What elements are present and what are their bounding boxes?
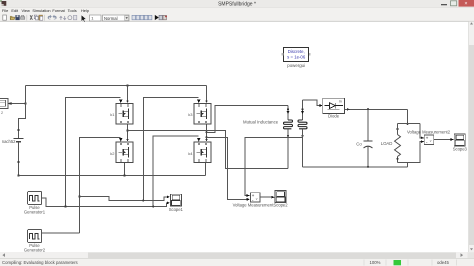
mouse cursor — [81, 15, 86, 22]
node secondary bottom — [301, 135, 303, 137]
pulse generator2 block — [28, 230, 42, 243]
svg-text:Generator2: Generator2 — [24, 247, 46, 252]
wire pulse generator1 output — [42, 198, 167, 207]
toolbar icon — [163, 15, 166, 19]
svg-text:Voltage Measurement2: Voltage Measurement2 — [407, 130, 451, 135]
svg-text:Generator1: Generator1 — [24, 209, 46, 214]
svg-text:nach52: nach52 — [2, 139, 16, 144]
svg-text:Edit: Edit — [11, 8, 19, 13]
new — [3, 15, 7, 20]
play button — [155, 15, 159, 20]
powergui block — [282, 48, 311, 62]
voltage measurement block — [250, 193, 259, 203]
wire top rail left drop — [19, 86, 26, 139]
open — [10, 16, 15, 20]
node B midpoint — [205, 131, 207, 133]
voltage measurement2 block — [424, 135, 434, 145]
window icon — [2, 1, 7, 6]
node A midpoint — [126, 129, 128, 131]
node battery bottom port — [17, 161, 19, 163]
capacitor Co — [364, 109, 373, 167]
wire vm2 to scope3 — [434, 139, 451, 141]
wire k4 source to ground rail — [205, 163, 207, 176]
toolbar icon — [63, 16, 66, 20]
wire k3 m to voltage measurement minus — [207, 137, 247, 199]
transistor k1 — [116, 104, 133, 125]
wire primary bottom drop — [287, 129, 289, 169]
scope3 block — [454, 134, 465, 146]
print — [21, 17, 25, 20]
horizontal scrollbar — [0, 252, 474, 259]
toolbar icon — [148, 15, 152, 19]
node pg1 to k1 — [64, 205, 66, 207]
toolbar icon — [159, 15, 162, 19]
svg-text:Compiling: Evaluating block pa: Compiling: Evaluating block parameters — [2, 260, 78, 265]
node pg1 to k4 — [152, 205, 154, 207]
wire load bottom — [398, 142, 424, 163]
svg-text:×: × — [464, 1, 467, 7]
transistor k4 — [194, 142, 211, 163]
svg-text:powergui: powergui — [287, 63, 305, 68]
toolbar icon — [60, 16, 63, 20]
menu bar — [2, 8, 89, 13]
corner artifact — [0, 0, 2, 2]
svg-text:Diode: Diode — [328, 114, 340, 119]
svg-text:m: m — [339, 100, 342, 104]
toolbar icon — [132, 15, 136, 19]
diode block — [323, 98, 345, 113]
wire load top — [398, 123, 420, 125]
wire k4 gate staple — [153, 136, 199, 206]
wire ground rail — [19, 175, 206, 177]
display block (cut off at left edge) — [0, 98, 8, 108]
svg-text:Tools: Tools — [68, 8, 77, 13]
DC voltage source nach52 — [14, 139, 24, 142]
wire k3 drain drop — [206, 86, 208, 101]
wire k1 drain drop — [127, 86, 129, 101]
toolbar icon — [68, 16, 72, 20]
node load bottom — [396, 158, 398, 160]
wire output bottom rail — [303, 166, 408, 168]
node load top tee — [406, 123, 408, 125]
pulse generator1 block — [28, 192, 42, 205]
mutual inductance primary coil — [284, 106, 293, 129]
CIRCUIT AREA — [0, 48, 468, 253]
svg-text:Mutual Inductance: Mutual Inductance — [243, 119, 279, 124]
wire battery bottom — [18, 142, 20, 176]
wire k3-k4 chain — [206, 125, 208, 140]
wire node A to primary return — [128, 131, 289, 169]
title bar — [0, 0, 474, 8]
scope1 block — [170, 194, 181, 206]
wire secondary tap to voltage measurement plus — [245, 137, 303, 195]
svg-text:Help: Help — [81, 8, 89, 13]
svg-text:LOAD: LOAD — [381, 141, 393, 146]
wire pulse generator2 output — [42, 232, 80, 234]
node Co top — [367, 108, 369, 110]
wire k2 gate staple — [80, 138, 121, 234]
svg-text:Voltage Measurement: Voltage Measurement — [233, 203, 275, 208]
toolbar icon — [136, 15, 140, 19]
node battery to ground rail — [17, 174, 19, 176]
svg-text:File: File — [2, 8, 8, 13]
svg-text:Co: Co — [356, 141, 362, 146]
node pg2 branch — [78, 195, 80, 197]
wire k3 gate staple — [143, 98, 198, 201]
svg-text:100%: 100% — [370, 260, 381, 265]
svg-text:Simulation: Simulation — [32, 8, 50, 13]
node k3 m port — [205, 136, 207, 138]
mutual inductance secondary coil — [298, 100, 307, 129]
wire load bottom to output rail — [407, 163, 409, 167]
svg-text:SMPSfullbridge *: SMPSfullbridge * — [218, 2, 256, 8]
sim time field — [90, 15, 102, 21]
node load top left — [396, 128, 398, 130]
resistor LOAD — [395, 124, 401, 163]
wire into display block — [11, 103, 26, 105]
wire node B to primary top — [207, 106, 289, 133]
wire load right to vm plus — [420, 124, 424, 138]
scope2 block — [275, 191, 286, 203]
copy — [34, 15, 37, 19]
minimize button — [441, 4, 447, 5]
vertical scrollbar — [469, 22, 474, 253]
svg-text:Normal: Normal — [104, 16, 118, 21]
svg-text:View: View — [22, 8, 31, 13]
undo — [48, 15, 52, 20]
cut — [30, 15, 32, 20]
node Co bottom — [367, 166, 369, 168]
wire k1-k2 chain — [127, 125, 129, 140]
wire pg2 to scope1 — [80, 197, 168, 201]
maximize button — [451, 1, 457, 6]
status bar — [0, 259, 474, 266]
node k2 ground — [123, 174, 125, 176]
mode dropdown — [103, 15, 130, 21]
svg-text:Format: Format — [52, 8, 65, 13]
wire k2 source to ground rail — [124, 163, 126, 176]
redo — [53, 15, 57, 20]
wire secondary top to diode — [303, 100, 320, 106]
wire output rail drop to load — [407, 109, 409, 123]
node on source top wire — [17, 129, 19, 131]
paste — [39, 15, 43, 20]
wire top rail — [26, 85, 207, 87]
svg-text:s = 1e-06: s = 1e-06 — [287, 54, 306, 59]
svg-text:Scope2: Scope2 — [273, 203, 288, 208]
save — [15, 15, 19, 20]
svg-text:Scope1: Scope1 — [169, 207, 184, 212]
node pg2 to k3 — [142, 199, 144, 201]
svg-text:ode45: ode45 — [437, 260, 450, 265]
node k1 drain on top rail — [126, 84, 128, 86]
node primary bottom — [287, 135, 289, 137]
svg-text:Discrete,: Discrete, — [288, 49, 305, 54]
wire secondary bottom drop — [302, 129, 304, 167]
toolbar icon — [140, 15, 144, 19]
wire diode output rail — [345, 108, 408, 110]
transistor k2 — [116, 142, 133, 163]
wire vm1 to scope2 — [260, 196, 272, 198]
wire k1 gate staple — [66, 98, 121, 207]
node on source vertical — [24, 102, 26, 104]
toolbar — [0, 15, 474, 23]
toolbar icon — [73, 15, 76, 19]
close button — [459, 0, 474, 7]
transistor k3 — [194, 104, 211, 125]
toolbar icon — [144, 15, 148, 19]
svg-text:Scope3: Scope3 — [453, 146, 468, 151]
svg-text:2: 2 — [1, 111, 3, 115]
